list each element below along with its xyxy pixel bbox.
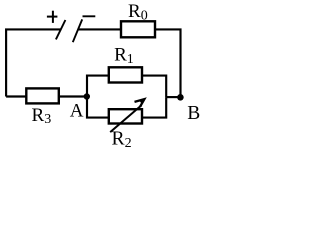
svg-text:R0: R0 — [128, 1, 148, 23]
svg-text:A: A — [70, 101, 84, 122]
svg-text:R1: R1 — [114, 45, 134, 67]
svg-text:R2: R2 — [112, 129, 132, 151]
svg-text:B: B — [187, 103, 200, 124]
svg-text:R3: R3 — [32, 105, 52, 127]
